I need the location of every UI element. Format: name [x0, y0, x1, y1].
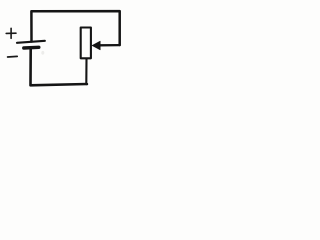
wire: top horizontal from battery + up and across to top-right corner, down right side	[31, 11, 119, 45]
faint scan smudge	[41, 51, 44, 55]
wire: bottom horizontal from battery - corner to R1 bottom lead	[31, 49, 87, 85]
battery B1 positive plate (long thin)	[17, 41, 45, 43]
polarity label -	[8, 55, 18, 58]
wire: R1 bottom lead down to bottom wire	[85, 59, 87, 85]
potentiometer R1 body (rectangle)	[81, 28, 91, 59]
battery B1 negative plate (short thick)	[24, 46, 39, 50]
polarity label +	[6, 28, 16, 38]
wire: wiper connection from right vertical wire left to arrowhead	[99, 44, 119, 47]
wiper arrow into potentiometer R1	[92, 41, 100, 50]
